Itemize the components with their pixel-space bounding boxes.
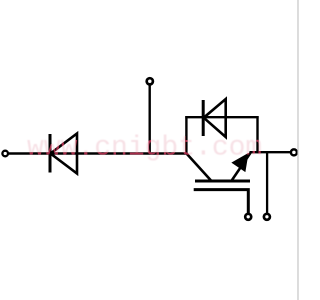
scan artifact: right edge gray line [297, 0, 299, 300]
wire: left terminal to collector node [9, 152, 188, 154]
IGBT Q1 collector diagonal [187, 154, 212, 181]
svg-text:www.cnigbt.com: www.cnigbt.com [27, 132, 262, 163]
IGBT Q1 body bar [195, 180, 250, 183]
wire: top terminal down to main wire [148, 85, 150, 154]
wire: emitter node to right terminal [250, 151, 291, 153]
IGBT Q1 emitter arrow [232, 154, 248, 172]
IGBT Q1 gate bar and gate lead [194, 190, 249, 214]
IGBT Q1 emitter diagonal [231, 153, 251, 182]
wire: diode loop right vertical [256, 116, 258, 153]
emitter auxiliary terminal [264, 214, 270, 220]
wire: emitter auxiliary drop [266, 152, 268, 213]
wire: diode loop top horizontal [185, 116, 258, 118]
left terminal [2, 151, 8, 157]
wire: diode loop left vertical [185, 116, 187, 154]
gate auxiliary terminal [245, 214, 251, 220]
diode D1 (series, cathode left) [50, 134, 77, 174]
right terminal [291, 149, 297, 155]
top terminal [147, 78, 153, 84]
diode D2 (freewheel, cathode left) [203, 99, 226, 137]
